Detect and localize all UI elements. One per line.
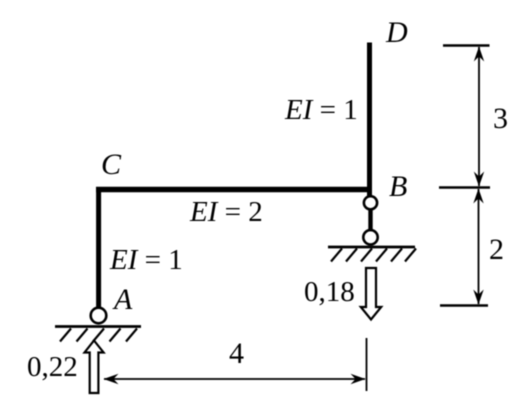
dimension 3 top tick (443, 44, 490, 46)
member C-B horizontal beam (96, 187, 372, 193)
svg-text:0,18: 0,18 (304, 276, 355, 308)
dimension 4 arrow right (351, 374, 366, 384)
svg-text:EI = 1: EI = 1 (109, 244, 183, 276)
dimension tick at B level (439, 186, 490, 188)
support B roller circle lower (363, 230, 377, 244)
dimension 2 bottom tick (440, 304, 488, 306)
svg-text:A: A (112, 283, 133, 316)
node A hinge circle (91, 308, 107, 324)
load arrow at B (hollow, down) (361, 268, 381, 320)
support B ground line (328, 246, 415, 249)
svg-text:C: C (101, 148, 122, 181)
svg-text:4: 4 (229, 337, 244, 370)
dimension 4 extension line below B (366, 338, 368, 391)
svg-text:EI = 1: EI = 1 (284, 94, 358, 126)
dimension 3 arrow up (474, 47, 484, 62)
member D-B vertical column (367, 43, 372, 197)
svg-text:3: 3 (493, 102, 508, 135)
node B hinge circle upper (364, 196, 377, 209)
support A hatching (60, 329, 137, 342)
dimension 3 arrow down (474, 172, 484, 187)
svg-text:2: 2 (489, 233, 504, 266)
svg-text:EI = 2: EI = 2 (189, 196, 263, 228)
reaction arrow at A (hollow, up) (85, 341, 104, 394)
member C-A vertical column (96, 187, 101, 308)
dimension 2 arrow up (473, 189, 483, 204)
support A ground line (55, 325, 141, 328)
svg-text:B: B (389, 170, 407, 203)
svg-text:D: D (385, 16, 408, 49)
dimension 3 line (478, 47, 480, 186)
dimension 4 line (104, 378, 365, 380)
dimension 2 line (478, 189, 480, 304)
dimension 2 arrow down (473, 290, 483, 305)
dimension 4 arrow left (104, 374, 119, 384)
support B link bar (368, 209, 372, 230)
support B hatching (331, 249, 416, 262)
svg-text:0,22: 0,22 (27, 351, 78, 383)
